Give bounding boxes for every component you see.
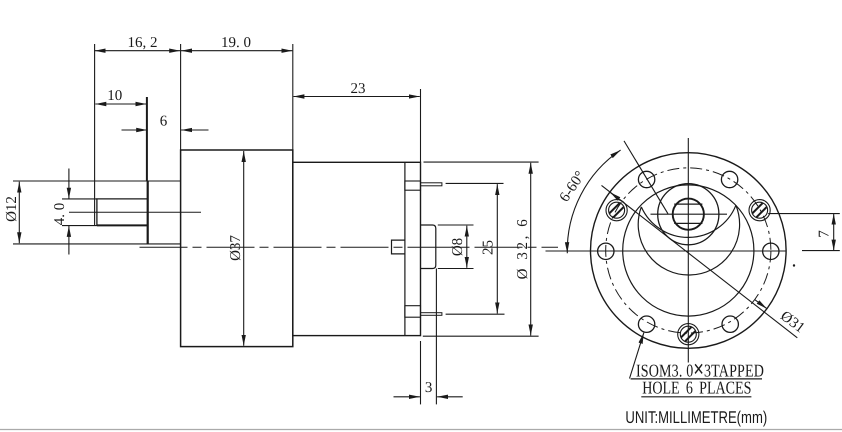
extension line Ø8 top	[438, 224, 474, 226]
shaft right reference	[768, 213, 840, 215]
motor centerline	[140, 246, 559, 248]
dimension 10	[95, 103, 146, 105]
dimension Ø32.6	[530, 163, 532, 336]
dimension Ø12	[18, 182, 20, 244]
svg-text:10: 10	[107, 88, 122, 104]
output shaft	[97, 199, 148, 226]
extension line 10 right	[146, 97, 148, 181]
horizontal centerline	[546, 250, 787, 252]
shaft circle Ø4	[673, 199, 704, 230]
boss bottom line (also Ø12 extension)	[13, 243, 181, 245]
dimension 6 right arrow	[181, 129, 208, 131]
shaft flat top chord	[674, 203, 702, 205]
dimension 16.2	[95, 50, 181, 52]
svg-text:Ø8: Ø8	[450, 238, 466, 256]
boss top line (also Ø12 extension)	[13, 180, 181, 182]
note leader arrow	[630, 333, 644, 379]
extension line cap below to 3-dim	[420, 341, 422, 404]
dimension Ø37	[243, 151, 245, 346]
note underline 2	[641, 396, 751, 398]
dimension 3 right arrow	[437, 396, 463, 398]
extension line motor top right	[424, 161, 539, 163]
svg-text:23: 23	[351, 81, 366, 97]
svg-text:7: 7	[817, 230, 833, 238]
svg-text:Ø 32, 6: Ø 32, 6	[515, 217, 531, 280]
dimension 23	[293, 96, 419, 98]
terminal blade top	[421, 183, 442, 186]
extension line 16.2 left	[94, 44, 96, 226]
bearing boss front plate	[147, 181, 149, 244]
Ø31 leader line	[602, 185, 798, 337]
dimension 6 left arrow	[122, 129, 148, 131]
dimension 3 left arrow	[394, 396, 420, 398]
Ø31 arrow lower	[755, 300, 767, 309]
extension line 23 right above cap	[420, 89, 422, 162]
note underline 1	[631, 378, 762, 380]
bolt circle Ø31 dashed	[606, 168, 771, 333]
dimension Ø8	[466, 226, 468, 268]
tapped hole 270deg	[673, 319, 699, 345]
hole 0deg	[763, 243, 779, 259]
extension line shaft top left	[62, 198, 97, 200]
inner circle motor body	[623, 185, 754, 316]
hole 60deg	[721, 171, 737, 187]
svg-text:25: 25	[481, 240, 497, 255]
extension line Ø8 boss below to 3-dim	[435, 269, 437, 405]
tapped hole 150deg	[602, 195, 628, 221]
svg-text:4. 0: 4. 0	[52, 203, 68, 226]
rear bearing boss Ø8	[421, 225, 436, 269]
motor end-cap divider	[404, 162, 406, 335]
dimension 4.0 bottom arrow	[68, 226, 70, 255]
svg-text:19. 0: 19. 0	[221, 35, 251, 51]
shaft bottom thick line	[97, 224, 148, 226]
svg-text:Ø37: Ø37	[228, 235, 244, 261]
crescent inner arc	[641, 205, 736, 237]
shaft centerline	[69, 211, 201, 213]
vertical centerline	[687, 138, 689, 363]
extension line gearbox front face above	[180, 44, 182, 150]
svg-text:6-60°: 6-60°	[557, 168, 589, 205]
cap key tab	[392, 240, 405, 254]
tapped hole 30deg	[745, 195, 771, 221]
extension line motor bottom right	[423, 335, 539, 337]
svg-text:HOLE 6 PLACES: HOLE 6 PLACES	[642, 378, 751, 398]
front boss circle Ø12	[658, 184, 719, 245]
hole 300deg	[722, 316, 738, 332]
dimension 7	[833, 214, 835, 251]
stray dot	[793, 264, 795, 266]
centerline right reference	[802, 250, 840, 252]
outer circle gearbox Ø37	[591, 153, 787, 349]
extension line gearbox rear face above	[292, 44, 294, 150]
terminal blade bottom	[421, 313, 442, 316]
hole 180deg	[598, 243, 614, 259]
terminal box bottom	[405, 306, 421, 318]
crescent outer arc	[638, 205, 739, 275]
shaft flat bottom chord	[674, 222, 702, 224]
bottom page line	[0, 429, 842, 431]
dimension 19.0	[181, 50, 292, 52]
6-60 dimension arc	[567, 150, 620, 253]
Ø31 arrow upper	[610, 192, 622, 201]
svg-text:3: 3	[425, 380, 433, 396]
hole 120deg	[638, 171, 654, 187]
gearbox body	[181, 150, 293, 347]
dimension 4.0 top arrow	[68, 169, 70, 199]
svg-text:6: 6	[160, 114, 168, 130]
motor body	[293, 162, 421, 335]
extension line Ø8 bottom	[438, 268, 474, 270]
dimension 25	[496, 184, 498, 313]
extension line terminal bottom	[446, 313, 505, 315]
hole 240deg	[638, 316, 654, 332]
terminal box top	[405, 181, 421, 190]
svg-text:16, 2: 16, 2	[128, 35, 158, 51]
extension line terminal top	[446, 182, 504, 184]
6-60 radial extension line	[624, 141, 668, 214]
svg-text:Ø12: Ø12	[4, 196, 20, 222]
svg-text:Ø31: Ø31	[777, 308, 807, 336]
extension line shaft bottom left	[62, 225, 97, 227]
svg-text:UNIT:MILLIMETRE(mm): UNIT:MILLIMETRE(mm)	[625, 408, 767, 427]
shaft horizontal centerline	[651, 213, 728, 215]
